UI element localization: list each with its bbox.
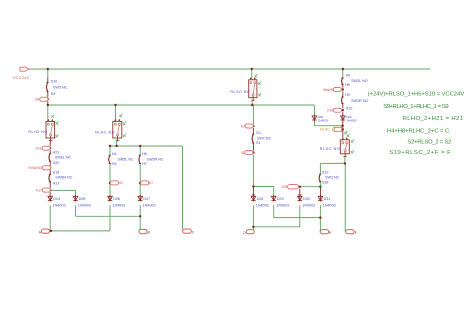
junction	[49, 189, 51, 191]
junction	[47, 68, 49, 70]
svg-text:1N4003: 1N4003	[256, 204, 269, 208]
junction	[139, 215, 141, 217]
svg-text:1N4003: 1N4003	[318, 118, 329, 122]
switch SW6L	[49, 150, 72, 165]
junction	[47, 104, 49, 106]
junction	[49, 167, 51, 169]
svg-text:RLSO NO: RLSO NO	[230, 90, 250, 94]
svg-text:S9: S9	[51, 92, 56, 96]
wire	[51, 230, 110, 232]
junction	[319, 185, 322, 188]
no-connect marks	[51, 115, 58, 138]
lamp S1	[241, 151, 253, 155]
junction	[342, 68, 344, 70]
svg-text:S1: S1	[241, 151, 245, 155]
wire	[342, 69, 344, 77]
wire	[75, 205, 77, 216]
junction	[251, 104, 253, 106]
svg-text:S1: S1	[256, 141, 261, 145]
diode D29	[271, 195, 289, 208]
svg-text:S9: S9	[35, 98, 39, 102]
svg-text:D05: D05	[79, 197, 86, 201]
lamp H3	[110, 181, 123, 185]
wire	[47, 69, 49, 77]
junction	[109, 145, 111, 147]
svg-text:H10: H10	[346, 106, 353, 110]
svg-text:SW6L NC: SW6L NC	[55, 155, 72, 159]
wire	[139, 146, 141, 155]
wire	[109, 205, 111, 231]
svg-text:VCC24V: VCC24V	[13, 76, 30, 80]
svg-text:1N4003: 1N4003	[302, 204, 315, 208]
svg-text:H20: H20	[53, 161, 60, 165]
svg-text:E: E	[329, 231, 331, 235]
lamp S2	[241, 124, 254, 128]
svg-text:RLH2 NO: RLH2 NO	[28, 130, 47, 134]
wire	[76, 215, 141, 217]
switch SW2	[319, 170, 340, 184]
lamp H19-H20	[28, 166, 50, 170]
svg-text:D29: D29	[277, 197, 284, 201]
svg-text:S19: S19	[322, 170, 329, 174]
svg-text:H19&H20: H19&H20	[28, 166, 42, 170]
switch SW3R	[341, 93, 368, 111]
svg-text:H17: H17	[53, 182, 60, 186]
power rail VCC24V wire	[28, 68, 430, 70]
wire	[342, 121, 344, 137]
wire	[342, 104, 344, 109]
svg-text:RLHO_2+H21 = H21: RLHO_2+H21 = H21	[403, 116, 464, 122]
switch SW1	[252, 131, 272, 145]
svg-text:H3: H3	[119, 181, 123, 185]
equation line 5	[407, 140, 451, 146]
wire	[115, 105, 117, 122]
diode D30	[297, 195, 315, 208]
wire	[49, 170, 51, 174]
lamp S18	[281, 185, 298, 190]
relay contact RLH2	[28, 119, 54, 141]
svg-text:SW5L NC: SW5L NC	[117, 158, 134, 162]
svg-text:B: B	[148, 231, 150, 235]
junction	[109, 182, 111, 184]
diode D02	[340, 115, 357, 123]
wire	[342, 84, 344, 87]
wire	[314, 121, 342, 126]
diode D06	[108, 195, 126, 208]
svg-text:F: F	[355, 231, 357, 235]
junction	[342, 128, 344, 130]
wire	[139, 205, 141, 229]
lamp H10	[327, 108, 341, 112]
wire	[182, 146, 184, 229]
wire	[251, 101, 253, 105]
wire	[49, 192, 51, 196]
no-connect marks	[255, 75, 262, 97]
svg-text:H10: H10	[327, 108, 333, 112]
wire	[313, 105, 315, 116]
svg-text:D04: D04	[53, 197, 60, 201]
wire	[252, 205, 254, 230]
junction	[252, 226, 254, 228]
svg-text:1N4003: 1N4003	[323, 204, 336, 208]
diode D28	[251, 195, 269, 208]
svg-text:H3: H3	[112, 162, 117, 166]
svg-text:S2: S2	[256, 131, 261, 135]
svg-text:H5: H5	[346, 73, 351, 77]
wire	[252, 105, 254, 124]
relay contact RLSO	[230, 77, 257, 101]
node S9 rail wire	[48, 104, 315, 106]
switch SW3L	[341, 73, 367, 87]
svg-text:H4: H4	[112, 152, 117, 156]
junction	[299, 186, 301, 188]
wire	[319, 163, 321, 174]
port E	[320, 230, 331, 235]
svg-text:1N4003: 1N4003	[276, 204, 289, 208]
svg-text:SW6R NC: SW6R NC	[55, 175, 72, 179]
port A	[39, 229, 50, 234]
junction	[115, 145, 117, 147]
svg-text:S2: S2	[241, 124, 245, 128]
wire	[298, 194, 302, 196]
wire	[252, 128, 254, 134]
relay contact RLSC	[320, 137, 350, 157]
wire	[139, 164, 141, 197]
diode D31	[318, 195, 336, 208]
svg-text:SW3L NO: SW3L NO	[351, 79, 368, 83]
junction	[251, 68, 253, 70]
svg-text:S19+RLSC_2+F = F: S19+RLSC_2+F = F	[389, 150, 451, 156]
svg-text:D28: D28	[257, 197, 264, 201]
svg-text:SW1 NC: SW1 NC	[257, 136, 272, 140]
svg-text:S9+RLHO_1+RLHC_1 = S9: S9+RLHO_1+RLHC_1 = S9	[383, 104, 448, 110]
junction	[47, 98, 49, 100]
wire	[319, 205, 321, 231]
wire	[252, 187, 254, 197]
svg-text:SW2 NC: SW2 NC	[325, 176, 340, 180]
wire	[342, 112, 344, 116]
wire	[109, 164, 111, 197]
junction	[252, 151, 254, 153]
svg-text:H7: H7	[149, 181, 153, 185]
port C	[183, 229, 195, 234]
wire	[344, 156, 346, 163]
svg-text:D06: D06	[113, 197, 120, 201]
no-connect marks	[347, 134, 354, 153]
svg-text:H7: H7	[142, 162, 147, 166]
wire	[49, 161, 51, 166]
net label RLSC_1	[320, 127, 342, 131]
junction	[114, 104, 116, 106]
svg-text:SW5R NC: SW5R NC	[147, 158, 164, 162]
no-connect mark	[344, 131, 347, 134]
wire	[274, 217, 321, 219]
svg-text:D31: D31	[324, 197, 331, 201]
svg-text:S2+RLSO_2 = S2: S2+RLSO_2 = S2	[407, 140, 451, 146]
junction	[49, 147, 51, 149]
wire	[109, 146, 111, 155]
equation line 4	[387, 129, 450, 135]
svg-text:S18: S18	[322, 180, 329, 184]
svg-text:H21: H21	[35, 147, 41, 151]
svg-text:RLSC_1: RLSC_1	[320, 128, 334, 132]
equation line 1	[368, 92, 465, 98]
wire	[342, 77, 344, 78]
wire	[49, 205, 51, 231]
wire	[47, 105, 49, 122]
svg-text:SW3R NO: SW3R NO	[351, 99, 368, 103]
svg-text:1N4003: 1N4003	[112, 204, 125, 208]
lamp H7	[141, 181, 154, 185]
wire	[342, 91, 344, 97]
junction	[342, 88, 344, 90]
diode D09	[312, 115, 328, 123]
junction	[252, 125, 254, 127]
svg-text:S18: S18	[281, 185, 287, 189]
switch SW5R	[139, 152, 164, 166]
diode D04	[48, 195, 66, 208]
svg-text:H8: H8	[142, 152, 147, 156]
svg-text:D30: D30	[303, 197, 310, 201]
svg-text:H18: H18	[53, 171, 60, 175]
wire	[253, 205, 299, 227]
svg-text:H6&H9: H6&H9	[323, 88, 334, 92]
wire	[252, 154, 254, 186]
port F	[346, 230, 357, 235]
svg-text:H9: H9	[345, 93, 350, 97]
wire	[344, 163, 346, 231]
wire	[251, 69, 253, 80]
wire	[300, 186, 321, 188]
svg-text:1N4003: 1N4003	[78, 204, 91, 208]
diode D05	[73, 195, 91, 208]
wire	[47, 101, 49, 105]
port D	[243, 230, 254, 235]
svg-text:RLSC NO: RLSC NO	[320, 147, 341, 151]
wire	[47, 92, 49, 98]
switch S10	[46, 80, 67, 96]
wire	[253, 187, 273, 197]
switch SW6R	[49, 171, 73, 186]
equation line 3	[403, 116, 464, 122]
lamp H21	[35, 146, 50, 150]
port B	[139, 229, 150, 234]
svg-text:RLHC NO: RLHC NO	[95, 130, 115, 134]
lamp H6-H9	[323, 88, 341, 93]
diode D07	[138, 195, 156, 208]
wire	[252, 143, 254, 151]
svg-text:H17: H17	[36, 188, 42, 192]
equation line 2	[383, 104, 448, 110]
junction	[319, 216, 321, 218]
svg-text:H4+H8+RLHC_2+C = C: H4+H8+RLHC_2+C = C	[387, 129, 450, 135]
junction	[50, 230, 52, 232]
wire	[273, 205, 275, 217]
junction	[342, 109, 344, 111]
svg-text:SW5 NC: SW5 NC	[53, 86, 68, 90]
wire	[47, 77, 49, 82]
svg-text:H21: H21	[53, 150, 60, 154]
svg-text:H6: H6	[345, 83, 350, 87]
junction	[139, 145, 141, 147]
wire	[110, 145, 183, 147]
svg-text:(+24V)+RLSO_1+H5+S10 = VCC24V: (+24V)+RLSO_1+H5+S10 = VCC24V	[368, 92, 465, 98]
relay contact RLHC	[95, 119, 122, 141]
junction	[139, 182, 141, 184]
wire	[252, 194, 256, 196]
power port VCC24V	[13, 67, 30, 80]
wire	[299, 189, 301, 197]
svg-text:D07: D07	[143, 197, 150, 201]
svg-text:1N4003: 1N4003	[143, 204, 156, 208]
junction	[341, 125, 343, 127]
wire	[49, 150, 51, 154]
wire	[50, 190, 75, 196]
no-connect marks	[119, 114, 126, 137]
wire	[49, 141, 51, 146]
equation line 6	[389, 150, 451, 156]
wire	[319, 182, 321, 187]
switch SW5L	[109, 152, 134, 166]
wire	[49, 182, 51, 188]
lamp H17	[36, 188, 50, 192]
wire	[319, 187, 321, 197]
junction	[344, 162, 346, 164]
lamp S9	[35, 97, 48, 101]
wire	[116, 141, 118, 146]
svg-text:S10: S10	[51, 80, 58, 84]
junction	[252, 185, 254, 187]
wire	[320, 162, 345, 164]
svg-text:1N4003: 1N4003	[53, 204, 66, 208]
svg-text:1N4003: 1N4003	[346, 118, 357, 122]
